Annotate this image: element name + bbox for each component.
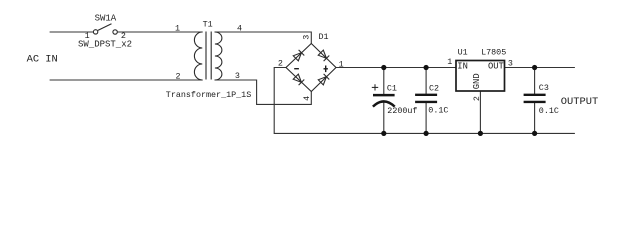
regulator U1 body: [456, 61, 505, 92]
wire transformer pin 3 to bridge pin 4: [215, 80, 311, 104]
svg-text:1: 1: [85, 31, 90, 41]
junction C1 top: [381, 65, 386, 70]
svg-text:C2: C2: [429, 83, 439, 93]
diode D1 bottom-left: [293, 74, 304, 85]
svg-text:GND: GND: [472, 73, 482, 89]
wire U1 OUT to OUTPUT: [505, 67, 575, 69]
wire transformer pin 4 to bridge pin 3: [215, 32, 311, 44]
junction U1 pin 2 ground: [478, 131, 483, 136]
junction C3 top: [532, 65, 537, 70]
svg-text:U1: U1: [458, 48, 468, 58]
wire switch pin 2 to transformer pin 1: [117, 31, 202, 33]
svg-text:2: 2: [175, 71, 180, 81]
svg-text:1: 1: [175, 23, 180, 33]
svg-text:C1: C1: [387, 83, 397, 93]
svg-text:OUTPUT: OUTPUT: [561, 96, 598, 108]
wire AC live from AC IN to switch pin 1: [50, 31, 93, 33]
svg-text:0.1C: 0.1C: [539, 106, 559, 116]
svg-text:4: 4: [237, 23, 242, 33]
svg-text:2: 2: [472, 96, 482, 101]
wire bridge pin 2 to ground rail: [274, 68, 286, 134]
junction C2 bottom: [424, 131, 429, 136]
bridge plus polarity mark: [324, 66, 328, 73]
diode D1 top-right: [318, 50, 329, 61]
transformer T1 secondary winding: [215, 32, 222, 80]
svg-text:1: 1: [447, 57, 452, 67]
svg-text:0.1C: 0.1C: [428, 106, 448, 116]
junction C2 top: [424, 65, 429, 70]
capacitor C1 polarized plates: [373, 95, 395, 107]
transformer T1 core: [206, 32, 211, 80]
junction C1 bottom: [381, 131, 386, 136]
svg-text:SW1A: SW1A: [95, 14, 117, 24]
svg-text:L7805: L7805: [481, 48, 506, 58]
wire ground rail: [274, 132, 574, 134]
svg-text:Transformer_1P_1S: Transformer_1P_1S: [166, 90, 251, 100]
svg-text:IN: IN: [457, 62, 468, 72]
svg-text:1: 1: [339, 60, 344, 70]
capacitor C3 plates: [524, 95, 546, 102]
svg-text:C3: C3: [539, 83, 549, 93]
wire C2 bottom lead: [425, 103, 427, 133]
bridge minus polarity mark: [294, 68, 299, 70]
wire C1 top lead: [383, 68, 385, 95]
svg-text:3: 3: [301, 35, 311, 40]
wire bridge pin 1 to U1 IN: [336, 67, 456, 69]
diode D1 top-left: [293, 50, 304, 61]
svg-text:D1: D1: [319, 32, 329, 42]
wire C1 bottom lead: [383, 103, 385, 134]
diode D1 bottom-right: [318, 74, 329, 85]
wire AC neutral from AC IN to transformer pin 2: [50, 79, 202, 81]
switch SW1A: [93, 24, 117, 34]
transformer T1 primary winding: [194, 32, 202, 80]
capacitor C2 plates: [415, 95, 437, 102]
svg-text:2200uf: 2200uf: [387, 106, 417, 116]
svg-text:T1: T1: [203, 20, 213, 30]
svg-text:3: 3: [235, 71, 240, 81]
wire U1 pin 2 to ground rail: [479, 91, 481, 133]
svg-text:3: 3: [508, 58, 513, 68]
wire C2 top lead: [425, 68, 427, 94]
wire C3 top lead: [534, 68, 536, 94]
svg-text:AC IN: AC IN: [27, 54, 58, 66]
capacitor C1 plus mark: [372, 84, 378, 90]
bridge rectifier D1 diamond body: [286, 44, 336, 92]
svg-text:4: 4: [302, 96, 312, 101]
junction C3 bottom: [532, 131, 537, 136]
wire C3 bottom lead: [534, 103, 536, 133]
svg-text:OUT: OUT: [488, 62, 504, 72]
svg-text:2: 2: [278, 58, 283, 68]
svg-text:2: 2: [121, 31, 126, 41]
